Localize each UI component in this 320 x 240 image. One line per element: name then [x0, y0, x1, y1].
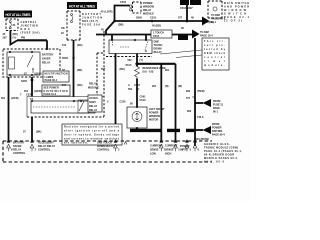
one touch down relay box — [109, 39, 152, 53]
wire label 57 BK lower — [23, 131, 41, 134]
svg-text:297: 297 — [3, 37, 8, 40]
svg-text:92-1: 92-1 — [211, 21, 217, 24]
svg-text:CONTROL: CONTROL — [38, 148, 51, 151]
main bus wire — [114, 20, 202, 22]
svg-text:CURRENT: CURRENT — [150, 145, 163, 148]
module dashed border left — [97, 53, 104, 96]
resistance wire run — [136, 54, 138, 67]
svg-text:PAGE 10-2: PAGE 10-2 — [44, 93, 57, 96]
svg-text:(BK): (BK) — [120, 68, 125, 71]
svg-text:961: 961 — [152, 85, 157, 88]
svg-text:962: 962 — [186, 90, 191, 93]
svg-text:MODULE: MODULE — [88, 87, 99, 90]
svg-text:(LB/R): (LB/R) — [34, 90, 42, 93]
svg-text:C510: C510 — [153, 35, 160, 38]
label relay module — [88, 83, 99, 90]
arrow from power distribution — [195, 123, 225, 137]
svg-text:BATTERY: BATTERY — [42, 54, 54, 57]
note box right — [202, 38, 229, 70]
connector C502 pins — [120, 1, 132, 11]
note box lower left — [62, 124, 122, 145]
window relay module dashed box — [133, 2, 142, 13]
svg-text:(2 OF 2): (2 OF 2) — [224, 20, 242, 23]
svg-text:are operated.: are operated. — [64, 142, 88, 145]
fuse F1 element — [9, 21, 16, 29]
wire labels 57 BK — [20, 73, 42, 97]
accessory relay contact — [78, 100, 89, 113]
svg-text:CB: CB — [61, 27, 65, 30]
pin battery saver relay control — [7, 139, 26, 155]
svg-text:MOTOR: MOTOR — [149, 119, 158, 122]
svg-text:RELAY: RELAY — [154, 51, 163, 54]
svg-text:CONTROL: CONTROL — [13, 152, 26, 155]
svg-text:SORY: SORY — [89, 101, 96, 104]
wire label 557 BK — [101, 68, 126, 104]
svg-text:(TN/R): (TN/R) — [197, 90, 205, 93]
node at resistor top — [126, 59, 144, 67]
svg-text:(BK): (BK) — [77, 69, 82, 72]
svg-text:(FUSE 30A): (FUSE 30A) — [21, 32, 40, 35]
wire V3 from relay to GEM — [21, 77, 33, 97]
svg-text:C320: C320 — [26, 94, 33, 97]
header HOT AT ALL TIMES left — [4, 11, 32, 18]
pin one touch down relay control — [97, 139, 127, 151]
svg-text:GEM check: GEM check — [204, 52, 226, 55]
svg-text:SENSE: SENSE — [165, 149, 174, 152]
svg-text:90-3, 90-5: 90-3, 90-5 — [204, 161, 225, 164]
leader lines to note — [160, 50, 202, 58]
connector chips top right — [180, 0, 214, 24]
svg-text:cuit pro-: cuit pro- — [204, 44, 225, 47]
svg-text:and current to window switches: and current to window switches — [64, 138, 120, 141]
svg-text:central: central — [204, 56, 225, 59]
pin current sense low — [150, 139, 166, 155]
module dashed top under relay — [106, 56, 152, 58]
thick dashed module bottom — [130, 129, 195, 132]
drop wires into relay — [112, 35, 146, 41]
label GEM — [204, 143, 242, 164]
fuse pin labels — [61, 27, 65, 35]
svg-text:PW: PW — [21, 37, 26, 40]
fuse box F1 (central junction box, dashed) — [6, 19, 18, 31]
battery saver relay dashed box — [3, 49, 60, 77]
svg-text:C502: C502 — [120, 1, 127, 4]
label resistance wire — [143, 67, 166, 74]
svg-text:This cir-: This cir- — [204, 40, 225, 43]
svg-text:(DG): (DG) — [77, 84, 83, 87]
wire labels on V4 — [62, 44, 83, 47]
pin accessory delay relay control — [30, 139, 55, 151]
svg-text:after ignition turn-off and a: after ignition turn-off and a — [64, 130, 120, 133]
svg-text:40 (LB/R): 40 (LB/R) — [101, 11, 113, 14]
svg-text:746 A: 746 A — [197, 116, 204, 119]
pin current sense high — [165, 139, 180, 155]
svg-text:RELAY: RELAY — [89, 83, 98, 86]
svg-text:(W): (W) — [178, 85, 182, 88]
svg-text:(Y): (Y) — [13, 37, 17, 40]
node S500 — [113, 17, 142, 23]
wire bar to battery saver relay — [17, 37, 47, 51]
wire label 962 TN/R — [186, 90, 205, 93]
svg-text:tected by: tected by — [204, 48, 226, 51]
wire labels A C507 — [128, 84, 141, 91]
svg-text:562: 562 — [128, 59, 133, 62]
wire resistor to motor — [136, 79, 138, 108]
wire labels C561 — [130, 96, 146, 106]
svg-text:(BK): (BK) — [36, 131, 41, 134]
svg-text:(0.6 - 0.8): (0.6 - 0.8) — [143, 71, 154, 74]
svg-text:(Y): (Y) — [140, 59, 144, 62]
resistor zigzag — [135, 67, 140, 79]
node C510 — [150, 17, 157, 23]
accessory delay relay dashed box — [27, 97, 104, 118]
svg-text:RELAY: RELAY — [89, 109, 98, 112]
svg-text:HOT AT ALL TIMES: HOT AT ALL TIMES — [69, 4, 95, 8]
relay contact — [27, 55, 34, 73]
svg-text:C507: C507 — [134, 84, 141, 87]
label window relay module — [143, 2, 155, 16]
svg-text:ACCES-: ACCES- — [89, 97, 99, 100]
wire label 601 LB/R — [1, 97, 19, 100]
header HOT AT ALL TIMES middle — [67, 2, 97, 9]
svg-text:module.: module. — [204, 64, 225, 67]
svg-text:HIGH: HIGH — [165, 153, 171, 156]
label window motor — [149, 108, 165, 122]
svg-text:S500: S500 — [136, 17, 142, 20]
wire V4 main feed down — [73, 40, 75, 97]
wire labels 577 — [152, 17, 194, 28]
module dashed border x104 — [103, 31, 105, 117]
svg-text:514: 514 — [62, 84, 67, 87]
wire label 502 DB — [101, 24, 123, 32]
svg-text:LOW: LOW — [150, 153, 156, 156]
illumination dashed box — [208, 1, 222, 18]
svg-text:door is opened. Sends voltage: door is opened. Sends voltage — [64, 134, 120, 137]
relay coil — [9, 57, 15, 69]
motor symbol — [132, 112, 142, 122]
pin labels 7A C7 — [30, 98, 97, 101]
arrow to dim page 10-4 — [192, 30, 213, 39]
wire label 22 BK/O — [3, 33, 18, 40]
pin power input — [180, 139, 192, 151]
wire across top of sense lines — [137, 63, 176, 65]
boxed label see power distribution — [42, 85, 70, 96]
svg-text:CONTROL: CONTROL — [97, 148, 110, 151]
relay contact in one touch relay — [113, 42, 149, 52]
label main switch illumination — [224, 2, 250, 23]
svg-text:(Y): (Y) — [136, 88, 140, 91]
right feed wire — [194, 38, 196, 146]
tick C502 — [186, 97, 195, 100]
svg-text:962: 962 — [187, 110, 192, 113]
svg-text:(R): (R) — [165, 85, 169, 88]
svg-text:601: 601 — [1, 97, 6, 100]
svg-text:90-1: 90-1 — [213, 111, 219, 114]
label battery junction box — [82, 13, 102, 27]
fuse box F2 (battery junction box, dashed) — [67, 11, 80, 40]
svg-text:(LB/O): (LB/O) — [34, 73, 42, 76]
wire from chips to bus — [186, 5, 189, 22]
svg-text:(LB/R): (LB/R) — [11, 97, 19, 100]
boxed label multifunction lamps — [43, 71, 69, 82]
fuse F2 element — [71, 14, 73, 23]
svg-text:961: 961 — [165, 69, 170, 72]
svg-text:Resistor energized for a perio: Resistor energized for a period — [64, 126, 119, 129]
arrow from power distribution — [195, 99, 224, 114]
svg-text:C510: C510 — [140, 99, 147, 102]
battery saver relay inner box — [7, 51, 40, 76]
wire label 502 LB/R — [101, 11, 113, 14]
svg-text:FUSE 30A: FUSE 30A — [82, 24, 100, 27]
svg-text:RELAY: RELAY — [42, 62, 51, 65]
wire label 962 lower — [187, 110, 204, 119]
wire from fuse F1 down — [10, 31, 17, 45]
svg-text:SENSE: SENSE — [150, 149, 159, 152]
wire motor to stop bar — [137, 128, 144, 132]
svg-text:577: 577 — [186, 97, 191, 100]
svg-text:A: A — [128, 84, 130, 87]
boxed label 1 touch — [151, 30, 172, 38]
svg-text:INPUT: INPUT — [180, 149, 188, 152]
wire label 46 — [178, 27, 188, 40]
accessory relay inner box — [31, 100, 95, 113]
svg-text:C510: C510 — [150, 17, 157, 20]
branch wire down from bus — [96, 21, 192, 35]
svg-text:514: 514 — [62, 44, 67, 47]
svg-text:MODULE: MODULE — [143, 13, 154, 16]
svg-text:PAGE 10-4: PAGE 10-4 — [200, 35, 213, 38]
wire one touch control down — [115, 54, 117, 142]
sense wire labels — [152, 69, 182, 88]
svg-text:557: 557 — [101, 68, 106, 71]
wire top connector run — [115, 6, 130, 22]
svg-text:S506: S506 — [62, 57, 68, 60]
svg-text:SAVER: SAVER — [42, 58, 51, 61]
wire accessory relay to GEM — [31, 117, 33, 141]
boxed label accessory delay relay — [88, 95, 102, 112]
svg-text:PAGE 90-4: PAGE 90-4 — [212, 134, 225, 137]
GEM module dashed box — [3, 141, 212, 162]
current sense low wire — [160, 64, 162, 141]
svg-text:S206: S206 — [21, 80, 27, 83]
svg-text:(DG): (DG) — [77, 44, 83, 47]
label one touch down relay — [154, 41, 163, 55]
svg-text:CURRENT: CURRENT — [165, 145, 178, 148]
arrow to dim pages — [202, 14, 226, 26]
svg-text:DELAY: DELAY — [89, 105, 98, 108]
svg-text:562: 562 — [128, 88, 133, 91]
svg-text:HOT AT ALL TIMES: HOT AT ALL TIMES — [6, 13, 31, 17]
label: central junction box — [21, 21, 40, 35]
svg-text:C255: C255 — [120, 101, 127, 104]
pin right feed — [193, 139, 200, 151]
window motor box — [127, 106, 147, 129]
svg-text:40 (DB): 40 (DB) — [152, 25, 161, 28]
current sense high wire — [175, 64, 177, 141]
label battery saver relay — [42, 54, 54, 65]
wire label S281 — [194, 138, 209, 141]
svg-text:577: 577 — [178, 17, 183, 20]
svg-text:(DB): (DB) — [118, 24, 123, 27]
svg-text:PAGE 90-1: PAGE 90-1 — [45, 79, 58, 82]
svg-text:S510: S510 — [126, 64, 132, 67]
wire V2 from relay to GEM — [8, 77, 10, 141]
